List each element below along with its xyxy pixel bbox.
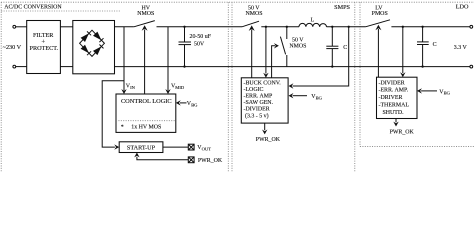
- node LDO in junction: [402, 26, 404, 28]
- pad V_OUT: [188, 144, 194, 150]
- LDO regulator box: [377, 77, 418, 118]
- frame: separator SMPS right: [354, 2, 356, 172]
- node input terminal top: [13, 25, 16, 28]
- svg-text:VBG: VBG: [187, 101, 198, 107]
- transistor HV NMOS switch blade: [134, 21, 155, 27]
- wire PWR_OK into startup: [137, 157, 188, 160]
- wire V_BG into ldo: [421, 90, 437, 92]
- frame: title underline AC/DC: [1, 10, 121, 12]
- node low-side top junction: [286, 26, 288, 28]
- wire startup feed from V_IN: [102, 81, 124, 147]
- svg-text:(3.3 - 5 v): (3.3 - 5 v): [245, 112, 269, 119]
- wire PMOS gate: [377, 29, 379, 77]
- svg-text:VBG: VBG: [439, 89, 450, 95]
- svg-text:PROTECT.: PROTECT.: [30, 45, 59, 52]
- svg-text:20-50 uF: 20-50 uF: [190, 34, 212, 40]
- node input terminal bottom: [13, 65, 16, 68]
- svg-text:NMOS: NMOS: [289, 44, 306, 50]
- wire LDO sense into box: [402, 27, 404, 73]
- bridge diamond: [80, 30, 105, 56]
- wire SW sense into buck box: [265, 27, 267, 74]
- svg-text:PWR_OK: PWR_OK: [256, 137, 281, 143]
- pad PWR_OK: [188, 157, 194, 163]
- svg-text:NMOS: NMOS: [245, 11, 262, 17]
- filter box: [27, 21, 61, 74]
- node SW junction: [265, 26, 267, 28]
- svg-text:SMPS: SMPS: [334, 4, 350, 11]
- bridge rectifier box: [73, 21, 115, 74]
- svg-text:LDO: LDO: [456, 4, 469, 11]
- wire V_BG into buck: [293, 95, 307, 97]
- frame: top dashed border: [1, 1, 474, 3]
- capacitor C ldo: [417, 26, 437, 68]
- svg-text:VBG: VBG: [311, 94, 322, 100]
- svg-text:NMOS: NMOS: [137, 11, 154, 17]
- svg-text:SHUTD.: SHUTD.: [383, 110, 405, 116]
- svg-text:-DIVIDER: -DIVIDER: [379, 80, 405, 86]
- wire filter to bridge bottom: [60, 66, 72, 68]
- wire after high-side switch: [261, 26, 299, 28]
- node output terminal bottom: [470, 65, 473, 68]
- svg-text:-THERMAL: -THERMAL: [379, 103, 410, 109]
- wire filter to bridge top: [60, 26, 72, 28]
- buck converter box: [241, 78, 288, 123]
- node output terminal top: [470, 25, 473, 28]
- wire low-side gate elbow: [272, 46, 275, 78]
- svg-text:-ERR. AMP.: -ERR. AMP.: [379, 88, 409, 94]
- wire HV rail after switch: [157, 26, 243, 28]
- svg-text:-BUCK CONV.: -BUCK CONV.: [244, 80, 282, 86]
- frame: LDO bottom border: [360, 146, 474, 148]
- svg-text:-DRIVER: -DRIVER: [379, 95, 403, 101]
- svg-text:L: L: [311, 17, 315, 23]
- wire V_BG into control logic: [180, 102, 187, 104]
- inductor L: [299, 23, 327, 26]
- wire PWR_OK out of buck: [264, 123, 266, 130]
- svg-text:3.3 V: 3.3 V: [454, 45, 468, 51]
- svg-text:1x HV MOS: 1x HV MOS: [131, 124, 161, 130]
- svg-text:PWR_OK: PWR_OK: [198, 158, 223, 164]
- svg-text:*: *: [121, 124, 124, 130]
- diode D3 bottom-left: [81, 45, 92, 56]
- startup box: [119, 142, 163, 153]
- wire bottom bus bridge to SMPS: [115, 66, 471, 68]
- capacitor 20-50uF: [179, 26, 212, 68]
- wire PWR_OK out of ldo: [395, 119, 397, 123]
- wire input bottom: [16, 66, 27, 68]
- wire after PMOS: [391, 26, 470, 28]
- svg-text:~230 V: ~230 V: [3, 44, 22, 51]
- control logic box: [116, 94, 176, 132]
- wire V_IN tap: [123, 27, 125, 91]
- wire input top: [16, 26, 27, 28]
- wire V_MID tap: [167, 27, 169, 91]
- capacitor C smps: [326, 26, 347, 68]
- svg-text:START-UP: START-UP: [127, 144, 156, 151]
- svg-text:VOUT: VOUT: [197, 145, 211, 151]
- svg-text:AC/DC CONVERSION: AC/DC CONVERSION: [4, 5, 62, 11]
- diode D4 bottom-right: [93, 45, 104, 56]
- svg-text:VMID: VMID: [171, 84, 185, 90]
- svg-text:PWR_OK: PWR_OK: [390, 129, 415, 135]
- frame: separator AC/DC right: [227, 2, 229, 172]
- svg-text:50V: 50V: [194, 41, 205, 47]
- transistor 50V NMOS low-side: [280, 27, 286, 67]
- frame: separator LDO left: [359, 2, 361, 146]
- svg-text:CONTROL LOGIC: CONTROL LOGIC: [121, 98, 172, 105]
- wire startup to V_OUT pad: [163, 146, 188, 148]
- diode D2 top-right: [93, 32, 104, 42]
- control logic internal dashed divider: [116, 120, 176, 122]
- wire high-side gate: [251, 30, 253, 78]
- svg-text:C: C: [433, 42, 437, 48]
- svg-text:VIN: VIN: [126, 84, 136, 90]
- transistor 50V NMOS high-side blade: [242, 21, 259, 27]
- svg-text:-LOGIC: -LOGIC: [244, 87, 264, 93]
- svg-text:C: C: [343, 45, 347, 51]
- wire bridge out top: [115, 26, 134, 28]
- svg-text:-DIVIDER: -DIVIDER: [244, 107, 270, 113]
- svg-text:-SAW GEN.: -SAW GEN.: [244, 100, 274, 106]
- frame: left dashed border: [0, 2, 2, 172]
- frame: separator SMPS left: [231, 2, 233, 172]
- wire feedback from 5V rail into buck box: [348, 26, 350, 28]
- transistor LV PMOS blade: [366, 20, 391, 27]
- wire HV NMOS gate from control logic: [144, 30, 146, 95]
- diode D1 top-left: [81, 31, 92, 42]
- svg-text:-ERR. AMP: -ERR. AMP: [244, 94, 274, 100]
- svg-text:PMOS: PMOS: [372, 11, 388, 17]
- wire inductor to LDO: [327, 26, 366, 28]
